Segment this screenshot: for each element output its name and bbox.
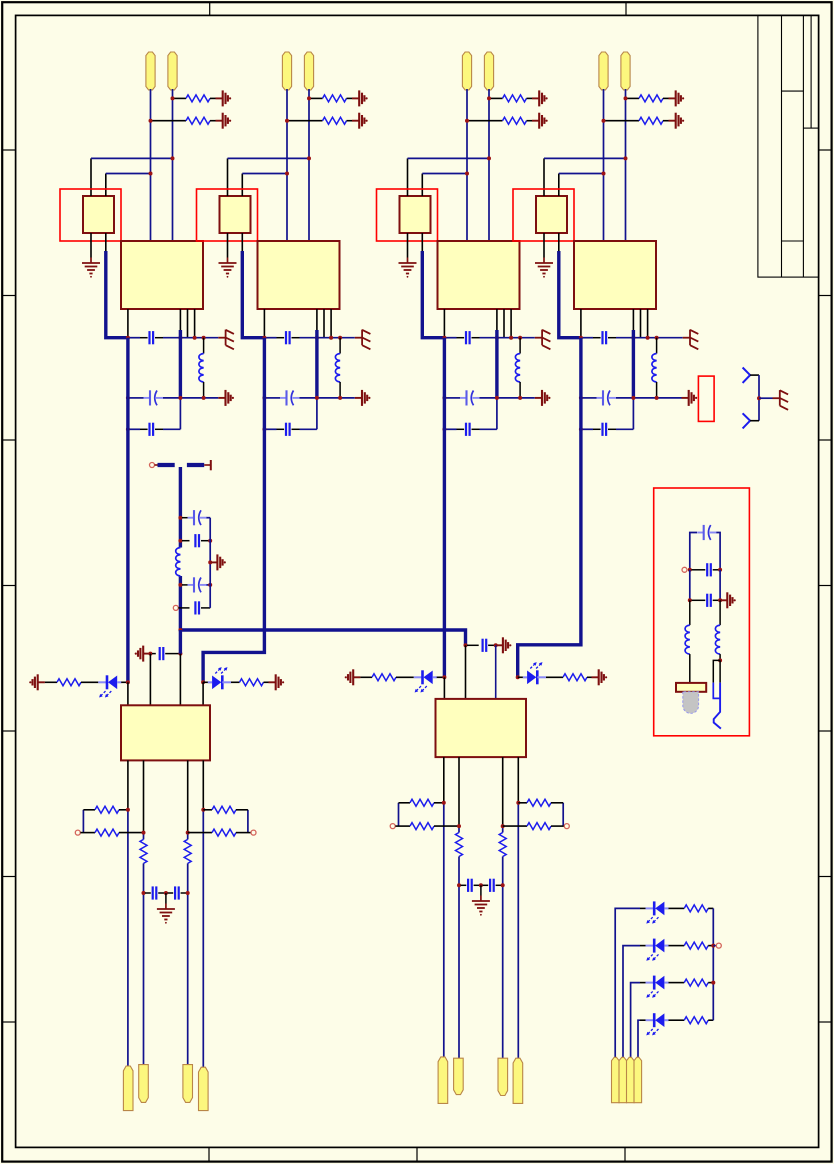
junction bbox=[208, 560, 212, 564]
junction bbox=[178, 396, 182, 400]
wire bbox=[300, 428, 317, 430]
wire (rail) bbox=[712, 908, 714, 1020]
wire bbox=[264, 397, 280, 399]
wire bbox=[128, 337, 140, 339]
terminal bbox=[251, 830, 256, 835]
junction bbox=[262, 396, 266, 400]
connector pad P7D bbox=[634, 1057, 642, 1102]
pin 3 bbox=[227, 233, 229, 258]
LED D4 bbox=[523, 676, 527, 678]
wire bbox=[106, 173, 151, 175]
connector pad P3B bbox=[484, 52, 493, 90]
pin bbox=[502, 757, 504, 826]
junction bbox=[126, 808, 130, 812]
ground (bar) bbox=[682, 397, 689, 399]
terminal bbox=[682, 567, 687, 572]
wire bbox=[581, 397, 597, 399]
terminal bbox=[564, 824, 569, 829]
ground (bar) bbox=[355, 397, 362, 399]
wire bbox=[150, 89, 152, 241]
pin 1 bbox=[407, 158, 409, 196]
wire bbox=[444, 428, 456, 430]
thick wire (rail) bbox=[126, 338, 129, 683]
filter U2F bbox=[220, 196, 251, 233]
wire bbox=[758, 375, 760, 421]
junction bbox=[516, 675, 520, 679]
wire bbox=[640, 907, 646, 909]
junction bbox=[126, 427, 130, 431]
ground (bar) bbox=[496, 644, 503, 646]
thick wire (rail) bbox=[518, 338, 581, 678]
junction bbox=[307, 96, 311, 100]
pin 2 bbox=[241, 174, 243, 197]
resistor R13 bbox=[684, 905, 708, 912]
junction bbox=[516, 801, 520, 805]
polarized capacitor C10A bbox=[697, 532, 704, 534]
thick wire (chain rail) bbox=[179, 467, 182, 548]
wire bbox=[517, 803, 519, 1060]
wire bbox=[623, 946, 640, 1058]
wire bbox=[640, 1019, 646, 1021]
junction bbox=[487, 96, 491, 100]
chassis ground bbox=[218, 337, 225, 339]
ground (bar) bbox=[352, 97, 359, 99]
wire bbox=[690, 533, 697, 570]
wire bbox=[264, 428, 276, 430]
wire bbox=[163, 337, 218, 339]
resistor R10A bbox=[456, 833, 463, 857]
wire bbox=[488, 89, 490, 241]
LED D3 bbox=[414, 676, 423, 678]
thick wire bbox=[242, 251, 264, 338]
junction bbox=[518, 396, 522, 400]
junction bbox=[126, 396, 130, 400]
resistor R12B bbox=[503, 825, 527, 827]
pin bbox=[202, 760, 204, 809]
junction bbox=[442, 801, 446, 805]
wire bbox=[458, 826, 460, 832]
wire bbox=[713, 660, 720, 682]
inductor L7 bbox=[715, 625, 720, 654]
junction bbox=[164, 891, 168, 895]
LED D5 bbox=[646, 907, 655, 909]
IC U5 bbox=[121, 705, 210, 760]
wire bbox=[458, 857, 460, 1059]
junction bbox=[518, 336, 522, 340]
wire bbox=[518, 676, 527, 678]
connector pad P6C bbox=[498, 1058, 508, 1095]
wire bbox=[689, 570, 691, 601]
wire bbox=[615, 908, 640, 1057]
pin bbox=[127, 682, 129, 705]
connector pad P4A bbox=[599, 52, 608, 90]
wire bbox=[163, 428, 180, 430]
capacitor C6A bbox=[152, 653, 156, 655]
resistor R15 bbox=[684, 979, 708, 986]
junction bbox=[178, 628, 182, 632]
junction bbox=[285, 172, 289, 176]
resistor R5B bbox=[240, 679, 264, 686]
junction bbox=[149, 172, 153, 176]
pin bbox=[149, 654, 151, 706]
resistor R14 bbox=[684, 942, 708, 949]
pin 2 bbox=[105, 174, 107, 197]
pin 3 bbox=[407, 233, 409, 258]
junction bbox=[178, 539, 182, 543]
wire bbox=[300, 337, 355, 339]
ground (bar) bbox=[218, 397, 225, 399]
junction bbox=[711, 944, 715, 948]
wire bbox=[308, 89, 310, 241]
wire bbox=[286, 89, 288, 241]
junction bbox=[495, 336, 499, 340]
junction bbox=[142, 831, 146, 835]
filter U4F bbox=[536, 196, 567, 233]
thick wire (rail) bbox=[203, 338, 264, 683]
connector pad P1B bbox=[168, 52, 177, 90]
ground (bar) bbox=[535, 397, 542, 399]
connector pad P5D bbox=[199, 1067, 209, 1110]
capacitor C5D bbox=[178, 607, 189, 609]
IC U2 bbox=[258, 241, 340, 309]
wire bbox=[546, 676, 563, 678]
pin bbox=[143, 760, 145, 832]
pin bbox=[323, 309, 325, 338]
ground (bar) bbox=[352, 120, 359, 122]
junction bbox=[338, 396, 342, 400]
junction bbox=[457, 883, 461, 887]
ground (bar) bbox=[216, 120, 223, 122]
junction bbox=[126, 680, 130, 684]
connector pad P2A bbox=[282, 52, 291, 90]
resistor R11B bbox=[395, 825, 410, 827]
junction bbox=[315, 396, 319, 400]
resistor R5A bbox=[45, 681, 57, 683]
resistor R2B bbox=[288, 120, 323, 122]
junction bbox=[148, 652, 152, 656]
pin bbox=[503, 309, 505, 338]
ground (bar) bbox=[38, 681, 45, 683]
capacitor C10B bbox=[692, 569, 706, 571]
wire bbox=[300, 397, 355, 399]
capacitor C1C bbox=[140, 428, 148, 430]
wire bbox=[603, 89, 605, 241]
connector pad P6B bbox=[454, 1058, 464, 1094]
pin 3 bbox=[543, 233, 545, 258]
ground (earth) bbox=[227, 258, 229, 264]
thick wire bbox=[179, 330, 182, 398]
connector pad P4B bbox=[621, 52, 630, 90]
junction bbox=[442, 396, 446, 400]
capacitor C9B bbox=[483, 884, 489, 886]
polarized capacitor C2B bbox=[280, 397, 287, 399]
junction bbox=[186, 831, 190, 835]
capacitor C10C bbox=[692, 599, 706, 601]
wire bbox=[581, 337, 593, 339]
inductor L4 bbox=[656, 338, 658, 354]
junction bbox=[178, 652, 182, 656]
pin bbox=[689, 654, 691, 683]
connector pad P7A bbox=[612, 1057, 620, 1102]
pin 1 bbox=[90, 158, 92, 196]
pin bbox=[187, 309, 189, 338]
wire bbox=[480, 337, 535, 339]
junction bbox=[479, 883, 483, 887]
wire bbox=[616, 428, 633, 430]
pin bbox=[194, 309, 196, 338]
connector pad P5A bbox=[123, 1066, 133, 1111]
switch SW1 terminal bbox=[150, 463, 155, 468]
inductor L3 bbox=[519, 338, 521, 354]
resistor R2A bbox=[310, 97, 323, 99]
junction bbox=[501, 824, 505, 828]
capacitor C2A bbox=[277, 337, 285, 339]
terminal bbox=[173, 605, 178, 610]
ground (bar) bbox=[532, 120, 539, 122]
connector pad P7B bbox=[619, 1057, 627, 1102]
connector pad P6A bbox=[438, 1057, 448, 1104]
wire bbox=[496, 398, 498, 429]
IC U4 bbox=[574, 241, 656, 309]
pin bbox=[443, 757, 445, 803]
IC U6 bbox=[436, 699, 527, 757]
junction bbox=[711, 981, 715, 985]
junction bbox=[602, 172, 606, 176]
junction bbox=[624, 96, 628, 100]
resistor R8B bbox=[188, 832, 212, 834]
pin bbox=[127, 309, 129, 338]
junction bbox=[757, 396, 761, 400]
LED D8 bbox=[646, 1019, 655, 1021]
ground (bar) bbox=[210, 561, 217, 563]
pin bbox=[127, 760, 129, 809]
ground (bar) bbox=[669, 120, 676, 122]
junction bbox=[631, 396, 635, 400]
resistor R10B bbox=[499, 833, 506, 857]
wire bbox=[202, 810, 204, 1068]
wire bbox=[719, 660, 721, 682]
wire bbox=[187, 863, 189, 1065]
junction bbox=[178, 336, 182, 340]
junction bbox=[509, 336, 513, 340]
junction bbox=[457, 824, 461, 828]
ground (earth) bbox=[165, 893, 167, 904]
polarized capacitor C5A bbox=[182, 517, 188, 519]
junction bbox=[501, 883, 505, 887]
capacitor C5B bbox=[182, 540, 190, 542]
resistor R9A bbox=[360, 676, 372, 678]
LED D1 bbox=[98, 681, 107, 683]
resistor R16 bbox=[684, 1017, 708, 1024]
wire bbox=[128, 428, 140, 430]
wire bbox=[242, 173, 287, 175]
connector pad P5B bbox=[139, 1065, 149, 1103]
wire bbox=[127, 810, 129, 1067]
thick wire (bus) bbox=[180, 630, 465, 645]
wire bbox=[640, 945, 646, 947]
polarized capacitor C1B bbox=[144, 397, 151, 399]
wire bbox=[209, 518, 211, 608]
wire bbox=[759, 397, 773, 399]
junction bbox=[494, 643, 498, 647]
polarized capacitor C4B bbox=[597, 397, 604, 399]
wire bbox=[502, 857, 504, 1059]
junction bbox=[208, 583, 212, 587]
wire bbox=[632, 398, 634, 429]
resistor R7A bbox=[83, 809, 95, 811]
wire bbox=[581, 428, 593, 430]
antenna bbox=[743, 413, 751, 428]
junction bbox=[579, 396, 583, 400]
wire bbox=[669, 907, 685, 909]
pin bbox=[179, 309, 181, 338]
wire bbox=[444, 337, 456, 339]
connector pad P5C bbox=[183, 1065, 193, 1103]
polarized capacitor C3B bbox=[460, 397, 467, 399]
capacitor C3A bbox=[457, 337, 465, 339]
junction bbox=[579, 336, 583, 340]
junction bbox=[149, 119, 153, 123]
junction bbox=[202, 336, 206, 340]
capacitor C9A bbox=[461, 884, 467, 886]
resistor R6B bbox=[184, 839, 191, 863]
junction bbox=[579, 427, 583, 431]
junction bbox=[718, 658, 722, 662]
terminal bbox=[390, 824, 395, 829]
pin 2 bbox=[558, 174, 560, 197]
junction bbox=[285, 119, 289, 123]
resistor R4A bbox=[627, 97, 640, 99]
IC U3 bbox=[438, 241, 520, 309]
polarized capacitor C5C bbox=[182, 584, 188, 586]
junction bbox=[655, 396, 659, 400]
wire bbox=[714, 683, 721, 729]
wire bbox=[616, 397, 682, 399]
pin bbox=[202, 682, 204, 705]
pin bbox=[580, 309, 582, 338]
filter U1F bbox=[83, 196, 114, 233]
junction bbox=[193, 336, 197, 340]
thick wire bbox=[422, 251, 444, 338]
junction bbox=[442, 336, 446, 340]
junction bbox=[631, 336, 635, 340]
wire bbox=[408, 157, 490, 159]
chassis ground bbox=[355, 337, 362, 339]
junction bbox=[307, 156, 311, 160]
wire bbox=[143, 863, 145, 1065]
wire bbox=[669, 945, 685, 947]
wire bbox=[121, 681, 126, 683]
capacitor C3C bbox=[457, 428, 465, 430]
LED D6 bbox=[646, 945, 655, 947]
junction bbox=[208, 539, 212, 543]
ground (bar) bbox=[269, 681, 276, 683]
junction bbox=[655, 336, 659, 340]
junction bbox=[186, 891, 190, 895]
pin bbox=[443, 309, 445, 338]
capacitor C8A bbox=[467, 644, 479, 646]
IC U1 bbox=[121, 241, 203, 309]
wire bbox=[437, 676, 443, 678]
pin bbox=[465, 645, 467, 699]
connector pad P2B bbox=[304, 52, 313, 90]
junction bbox=[646, 336, 650, 340]
thick wire bbox=[632, 330, 635, 398]
wire bbox=[316, 398, 318, 429]
filter U3F bbox=[400, 196, 431, 233]
resistor R3A bbox=[490, 97, 503, 99]
wire bbox=[544, 157, 626, 159]
LED D2 bbox=[208, 681, 212, 683]
wire bbox=[398, 803, 400, 826]
junction bbox=[329, 336, 333, 340]
resistor R9B bbox=[563, 674, 587, 681]
junction bbox=[442, 427, 446, 431]
connector pad P7C bbox=[627, 1057, 635, 1102]
pin bbox=[640, 309, 642, 338]
wire bbox=[559, 173, 604, 175]
pin bbox=[719, 600, 721, 625]
ground (bar) bbox=[143, 653, 150, 655]
wire bbox=[443, 803, 445, 1060]
wire bbox=[228, 157, 310, 159]
thick wire (rail) bbox=[443, 338, 446, 678]
junction bbox=[465, 119, 469, 123]
resistor R1A bbox=[174, 97, 187, 99]
wire bbox=[562, 803, 564, 826]
pin bbox=[179, 654, 181, 706]
thick wire bbox=[495, 330, 498, 398]
resistor R6A bbox=[140, 839, 147, 863]
wire bbox=[631, 983, 640, 1058]
chassis ground bbox=[773, 397, 780, 399]
pin 4 bbox=[241, 233, 243, 251]
junction bbox=[262, 427, 266, 431]
wire bbox=[638, 1020, 640, 1057]
pin bbox=[458, 757, 460, 826]
wire bbox=[616, 337, 683, 339]
ground (earth) bbox=[543, 258, 545, 264]
wire bbox=[422, 173, 467, 175]
resistor R11A bbox=[399, 802, 411, 804]
wire bbox=[143, 833, 145, 840]
junction bbox=[688, 598, 692, 602]
ground (bar) bbox=[592, 676, 599, 678]
pin bbox=[495, 645, 497, 699]
capacitor C4A bbox=[593, 337, 601, 339]
pin 4 bbox=[105, 233, 107, 251]
junction bbox=[465, 172, 469, 176]
wire bbox=[91, 157, 173, 159]
ground (bar) bbox=[669, 97, 676, 99]
pin bbox=[510, 309, 512, 338]
ground (bar) bbox=[216, 97, 223, 99]
capacitor C1A bbox=[140, 337, 148, 339]
capacitor C2C bbox=[277, 428, 285, 430]
selection box bbox=[197, 189, 258, 241]
pin bbox=[647, 309, 649, 338]
junction bbox=[315, 336, 319, 340]
pin bbox=[496, 309, 498, 338]
thick wire bbox=[315, 330, 318, 398]
junction bbox=[262, 336, 266, 340]
ground (earth) bbox=[480, 885, 482, 895]
junction bbox=[718, 568, 722, 572]
wire bbox=[163, 397, 218, 399]
junction bbox=[202, 396, 206, 400]
junction bbox=[464, 643, 468, 647]
capacitor C7B bbox=[168, 892, 174, 894]
